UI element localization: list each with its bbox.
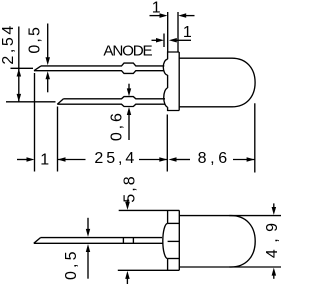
arrowhead standoff left	[156, 38, 164, 43]
arrowhead 8,6 left	[169, 157, 177, 162]
LED upper lead (anode) top edge	[41, 63, 164, 66]
arrowhead 2,54 down	[17, 94, 22, 102]
extension line from cathode lead tip	[57, 107, 59, 172]
dim 8,6 left tail	[176, 159, 190, 161]
extension line flange left lower	[166, 115, 168, 172]
arrowhead dim1 flange right	[178, 13, 186, 17]
svg-text:25,4: 25,4	[94, 150, 137, 167]
arrowhead tips dim left	[27, 157, 35, 162]
bottom view lead crimp tick left	[122, 238, 124, 244]
dim 5,8 upper tail	[127, 200, 129, 204]
svg-text:8,6: 8,6	[198, 150, 231, 167]
dim 2,54 extension upper	[11, 67, 34, 69]
arrowhead 4,9 up	[272, 268, 277, 276]
LED lower lead (cathode) top edge	[64, 97, 166, 99]
arrowhead 8,6 right	[247, 157, 255, 162]
extension line flange right	[177, 12, 179, 52]
bottom view lead tip chamfer	[34, 238, 41, 244]
dim 4,9 extension upper	[229, 215, 281, 217]
extension line flange left	[167, 12, 169, 52]
arrowhead 25,4 right	[159, 157, 167, 162]
LED epoxy dome (top view)	[179, 58, 255, 107]
dim 1 (flange) right tail	[186, 15, 195, 17]
svg-text:0,5: 0,5	[26, 25, 43, 54]
bottom flange divider upper	[168, 222, 180, 224]
LED body flange (top view)	[168, 52, 180, 111]
dim 1 (standoff) left tail	[152, 39, 158, 41]
svg-text:ANODE: ANODE	[103, 42, 152, 59]
dim 5,8 lower tail	[126, 278, 128, 284]
arrowhead dim1 flange left	[160, 13, 168, 18]
dim 0,5 upper tail	[47, 24, 49, 59]
dim 0,5 lower tail	[47, 79, 49, 93]
svg-text:4,9: 4,9	[264, 216, 281, 258]
dim 1 (standoff) right tail	[176, 39, 191, 41]
dim 0,6 upper tail	[128, 84, 130, 90]
extension line dome right	[254, 103, 256, 172]
arrowhead 0,5 bottom down	[86, 229, 90, 237]
arrowhead standoff right	[169, 38, 177, 43]
dim 2,54 line	[18, 27, 20, 102]
extension line from anode lead tip	[34, 73, 36, 172]
svg-text:1: 1	[183, 24, 194, 41]
dim 0,6 lower tail	[128, 114, 130, 141]
LED lower lead (cathode) bottom edge	[57, 104, 165, 106]
extension line bump edge	[163, 34, 165, 48]
dim 4,9 upper tail	[273, 203, 275, 208]
LED upper lead tip chamfer	[34, 66, 41, 71]
dim 4,9 lower tail	[273, 275, 275, 279]
dim 1 (flange) left tail	[150, 15, 161, 17]
arrowhead 2,54 up	[17, 69, 22, 77]
arrowhead 0,5 up	[46, 71, 51, 79]
arrowhead 0,5 bottom up	[86, 244, 90, 252]
dim 0,5 bottom upper tail	[87, 218, 89, 231]
bottom view epoxy dome	[179, 216, 255, 267]
arrowhead 0,6 up	[127, 107, 131, 115]
bottom view lead crimp tick right	[132, 238, 134, 244]
dim 25,4 line left part	[58, 159, 86, 161]
dim 1 (tips) left tail	[17, 159, 28, 161]
svg-text:0,6: 0,6	[108, 110, 125, 141]
bottom flange divider middle	[168, 240, 180, 242]
LED lower lead tip chamfer	[57, 99, 63, 104]
bottom flange divider lower	[168, 258, 180, 260]
bottom view lead top edge	[41, 237, 163, 239]
dim 0,5 bottom lower tail	[87, 251, 89, 279]
bottom view flange	[118, 210, 180, 270]
svg-text:2,54: 2,54	[0, 23, 17, 65]
svg-text:5,8: 5,8	[121, 174, 138, 203]
bottom flange lead bump	[163, 223, 168, 258]
svg-text:0,5: 0,5	[63, 248, 80, 280]
flange lead bump lower	[164, 88, 168, 107]
dim 4,9 extension lower	[229, 266, 281, 268]
arrowhead 0,6 down	[127, 88, 131, 96]
arrowhead 5,8 up	[125, 271, 130, 279]
arrowhead 4,9 down	[272, 207, 277, 215]
dim 8,6 right part	[233, 159, 255, 161]
bottom view lead bottom edge	[34, 242, 163, 244]
dim 2,54 extension lower	[6, 101, 56, 103]
arrowhead tips dim right / 25,4 left	[58, 157, 66, 162]
dim 25,4 line right part	[139, 159, 167, 161]
flange lead bump upper	[163, 59, 167, 75]
svg-text:1: 1	[40, 151, 51, 168]
arrowhead 5,8 down	[125, 202, 130, 210]
svg-text:1: 1	[152, 0, 163, 16]
LED upper lead (anode) bottom edge	[34, 71, 164, 74]
arrowhead 0,5 down	[46, 57, 51, 65]
